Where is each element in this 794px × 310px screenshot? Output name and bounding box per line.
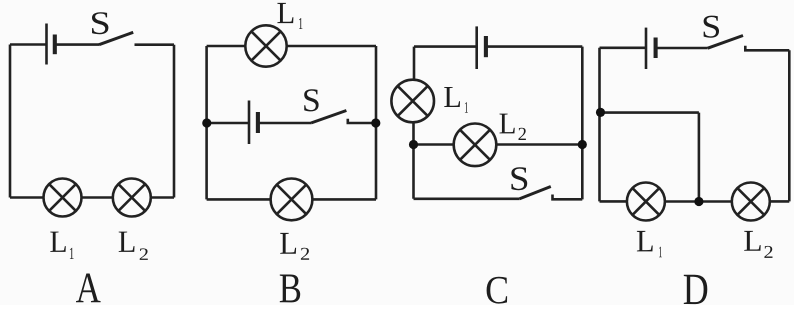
wire D top-right [745, 46, 789, 51]
wire D bottom-left [600, 200, 627, 203]
wire C right vertical [581, 47, 584, 200]
lamp L1 D [627, 183, 665, 221]
label A [76, 273, 101, 302]
switch S blade C [519, 187, 551, 199]
wire C left vertical lower [412, 122, 415, 199]
wire B middle-right [348, 119, 376, 123]
wire C bottom-right [553, 195, 583, 200]
label L2 of lamp L2 B [280, 233, 309, 260]
wire D top-middle [656, 47, 708, 50]
label S of switch A [92, 12, 108, 34]
wire B bottom-left [207, 198, 271, 201]
wire C left vertical upper [413, 47, 416, 80]
wire A between lamps [82, 196, 113, 199]
wire D bottom-right [770, 200, 790, 203]
wire C top-right [486, 45, 582, 48]
wire D right vertical [788, 50, 791, 201]
wire A top-right [135, 43, 175, 46]
wire C middle-left [414, 143, 454, 146]
wire B middle [258, 122, 311, 125]
wire D inner branch vertical [698, 113, 701, 202]
label L2 of lamp L2 D [744, 231, 772, 258]
wire A left vertical [9, 45, 12, 198]
wire D inner branch horizontal [601, 111, 699, 114]
label L1 of lamp L1 D [637, 231, 662, 257]
wire D bottom between L1 and node [665, 200, 699, 203]
node C left junction [409, 140, 418, 149]
wire B middle-left [207, 122, 249, 125]
wire C middle-right [496, 143, 582, 146]
wire A bottom-right [151, 196, 174, 199]
wire A top-middle [55, 43, 99, 46]
lamp L2 A [113, 179, 151, 217]
wire B right vertical [375, 46, 378, 199]
lamp L1 B [245, 25, 286, 66]
lamp L2 C [454, 124, 497, 167]
battery B [249, 101, 258, 145]
label D [684, 275, 707, 304]
wire B left vertical [205, 46, 208, 199]
label L1 of lamp L1 A [50, 232, 73, 259]
label L2 of lamp L2 C [499, 114, 525, 140]
lamp L1 A [44, 179, 82, 217]
battery D [646, 28, 656, 69]
node D bottom junction [694, 197, 703, 206]
lamp L1 C [391, 80, 434, 123]
wire A bottom-left [10, 196, 44, 199]
label C [487, 277, 508, 304]
label L1 of lamp L1 C [444, 87, 468, 113]
label S of switch D [704, 16, 719, 38]
switch S blade B [311, 111, 346, 124]
switch S blade A [99, 32, 133, 44]
label S of switch C [511, 167, 527, 190]
node D left junction [596, 108, 605, 117]
wire A right vertical [173, 45, 176, 198]
wire C bottom-left [414, 198, 520, 201]
lamp L2 D [732, 183, 770, 221]
node B left junction [202, 118, 211, 127]
battery A [47, 24, 55, 65]
node C right junction [578, 140, 587, 149]
wire B bottom-right [312, 198, 376, 201]
node B right junction [371, 118, 380, 127]
label B [280, 275, 300, 303]
label L2 of lamp L2 A [119, 232, 148, 260]
wire D top-left [600, 46, 647, 49]
battery C [477, 26, 486, 69]
wire C top-left [414, 45, 477, 48]
wire D left vertical [598, 48, 601, 202]
switch S blade D [708, 36, 743, 49]
wire B top-left [207, 45, 246, 48]
label L1 of lamp L1 B [277, 3, 302, 29]
label S of switch B [304, 89, 318, 111]
wire B top-right [287, 45, 376, 48]
wire D bottom between node and L2 [699, 200, 732, 203]
wire A top-left [10, 43, 47, 46]
lamp L2 B [271, 179, 313, 221]
